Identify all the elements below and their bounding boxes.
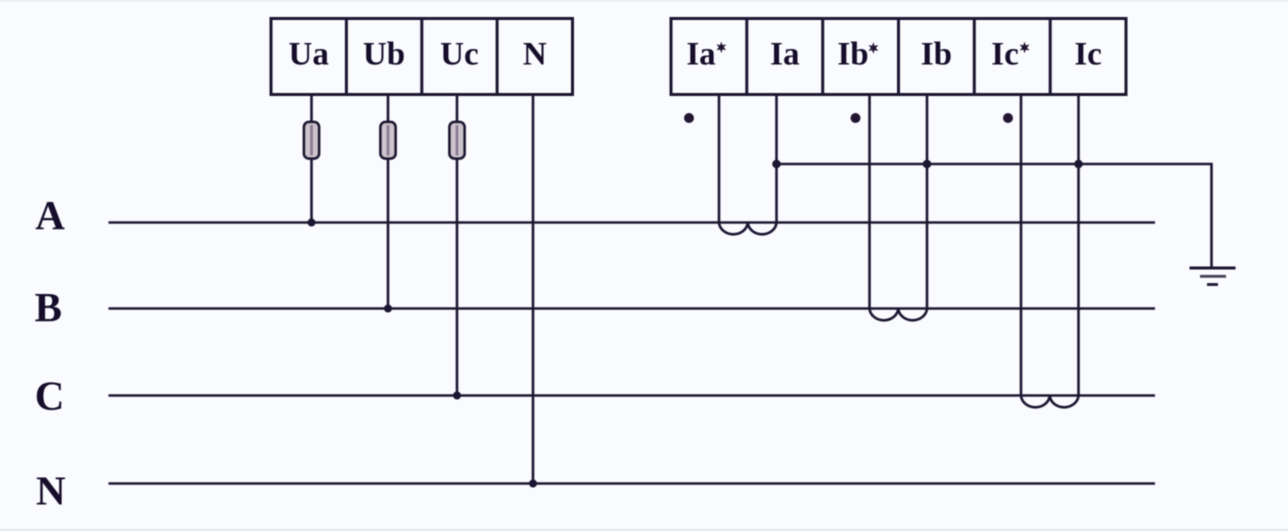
ground symbol: [1190, 268, 1236, 285]
wire N terminal to line N: [532, 95, 535, 484]
phase line C: [109, 394, 1156, 397]
junction dot Ub-line B: [384, 305, 392, 313]
svg-text:Uc: Uc: [440, 37, 478, 73]
fuse FU3 on Uc wire: [450, 122, 465, 159]
phase line A: [109, 221, 1156, 224]
terminal separator Ua/Ub: [345, 19, 348, 95]
junction dot N-line N: [529, 480, 537, 488]
terminal label Ib*: [837, 37, 878, 73]
svg-text:A: A: [35, 192, 65, 238]
wire Ib to line B: [926, 95, 929, 309]
terminal separator Ia*/Ia: [745, 19, 748, 95]
terminal label Ic*: [991, 37, 1029, 73]
junction dot bus-Ic: [1074, 160, 1083, 169]
current terminal block outline: [671, 19, 1126, 95]
top edge line: [0, 0, 1288, 2]
svg-text:Ib: Ib: [921, 37, 952, 73]
CT winding on line B: [870, 309, 928, 321]
phase line B: [109, 307, 1156, 310]
svg-text:Ua: Ua: [289, 37, 329, 73]
svg-text:B: B: [35, 284, 62, 330]
terminal label Ia*: [686, 37, 726, 73]
wire Ia* to line A: [718, 95, 721, 223]
voltage terminal block outline: [271, 19, 573, 95]
CT winding on line A: [719, 223, 777, 235]
svg-text:Ub: Ub: [363, 37, 405, 73]
wire Ic* to line C: [1020, 95, 1023, 396]
junction dot bus-Ib: [923, 160, 932, 169]
junction dot Ua-line A: [308, 219, 316, 227]
wire Ib* to line B: [868, 95, 871, 309]
CT winding on line C: [1021, 396, 1079, 408]
junction dot bus-Ia: [772, 160, 781, 169]
polarity dot Ib*: [851, 113, 861, 123]
wire Uc to line C: [456, 95, 459, 396]
wire Ic to line C: [1077, 95, 1080, 396]
terminal separator Ib*/Ib: [897, 19, 900, 95]
neutral line N: [109, 482, 1156, 485]
secondary common bus wire: [777, 164, 1212, 268]
polarity dot Ia*: [684, 113, 694, 123]
junction dot Uc-line C: [453, 392, 461, 400]
svg-text:C: C: [35, 373, 65, 419]
terminal separator Ub/Uc: [420, 19, 423, 95]
wire Ub to line B: [387, 95, 390, 309]
svg-text:Ic: Ic: [991, 37, 1019, 73]
polarity dot Ic*: [1003, 113, 1013, 123]
wire Ua to line A: [310, 95, 313, 223]
svg-text:N: N: [523, 37, 547, 73]
svg-text:Ib: Ib: [837, 37, 868, 73]
svg-text:Ic: Ic: [1074, 37, 1102, 73]
svg-text:Ia: Ia: [770, 37, 799, 73]
terminal separator Ic*/Ic: [1049, 19, 1052, 95]
wire Ia to line A: [775, 95, 778, 223]
terminal separator Ib/Ic*: [973, 19, 976, 95]
fuse FU2 on Ub wire: [381, 122, 396, 159]
svg-text:Ia: Ia: [686, 37, 715, 73]
fuse FU1 on Ua wire: [304, 122, 319, 159]
svg-text:N: N: [36, 468, 66, 514]
terminal separator Uc/N: [496, 19, 499, 95]
terminal separator Ia/Ib*: [821, 19, 824, 95]
bottom edge line: [0, 529, 1288, 532]
